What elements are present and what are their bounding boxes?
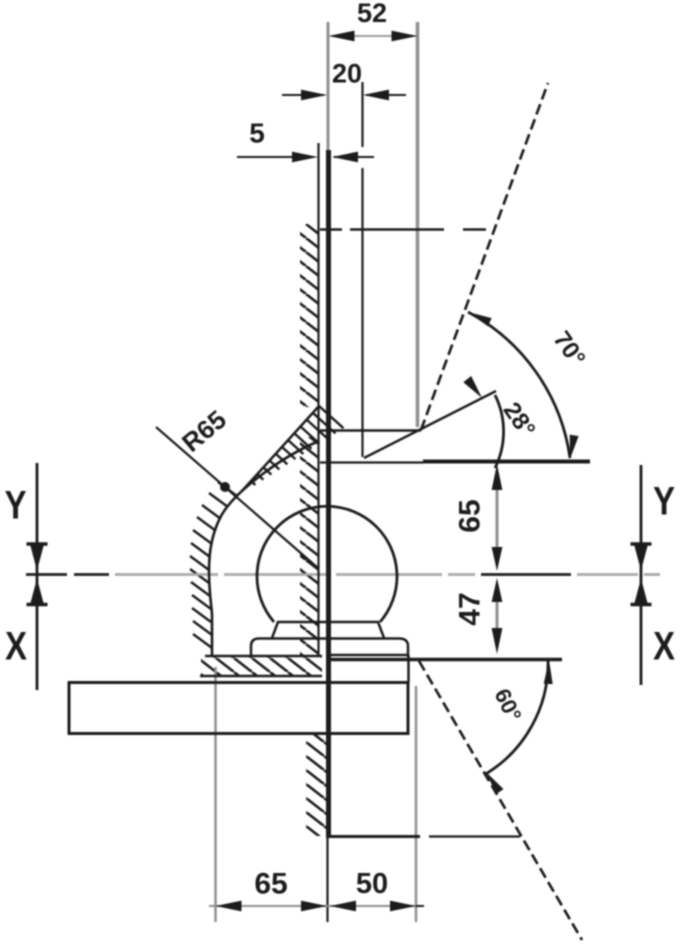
horizontal line at y430 (top reference) <box>320 429 421 432</box>
ball neck right <box>378 622 384 638</box>
hatching of curved hook wall wedge (R65 section) <box>319 406 343 428</box>
svg-text:Y: Y <box>5 483 27 528</box>
bracket plate right edge <box>407 655 410 682</box>
bottom dim arrows 50 <box>330 901 356 912</box>
svg-text:65: 65 <box>454 499 487 532</box>
hachure ticks along lower hook curve <box>218 482 237 496</box>
bracket plate right portion top edge <box>329 654 409 657</box>
horizontal centerline through ball center (dash pattern) <box>26 573 67 576</box>
hatching of horizontal bracket plate (section) <box>201 657 322 676</box>
28 degree dimension arc <box>495 395 504 468</box>
bottom extension line 65 (left) <box>214 667 217 922</box>
ball neck left <box>272 622 278 638</box>
dimension line 47 (vertical right) <box>496 586 499 646</box>
vertical wall right edge thick line <box>326 150 331 838</box>
extension line for 52 (left, top of wall) <box>327 22 330 150</box>
extension line for 52 (right) <box>416 22 420 427</box>
svg-text:70°: 70° <box>548 326 591 371</box>
hatching on lower vertical wall below rectangle <box>306 735 328 836</box>
dimension line 52 <box>331 35 415 37</box>
curved hook inner edge <box>209 441 319 656</box>
bottom dimension line <box>209 905 416 907</box>
extension line 20 (right) <box>361 82 363 147</box>
svg-text:R65: R65 <box>176 404 232 458</box>
long reference surface line to 60deg vertex <box>329 658 562 662</box>
svg-text:5: 5 <box>249 118 265 149</box>
bottom dim arrows 65 <box>216 901 242 912</box>
svg-text:47: 47 <box>454 592 487 625</box>
hatching on wall behind ball <box>300 437 319 656</box>
tow ball sphere <box>257 506 397 622</box>
bottom extension line 50 (right) <box>415 686 418 922</box>
svg-text:Y: Y <box>653 479 675 524</box>
horizontal line below wall (y836) <box>328 835 420 838</box>
right section axis line with arrows <box>640 465 643 685</box>
svg-text:20: 20 <box>332 59 362 89</box>
mounting bar rectangle <box>69 683 408 734</box>
R65 leader line <box>156 427 318 568</box>
horizontal reference line (70/28 deg vertex line) <box>320 461 423 463</box>
collar below ball <box>251 639 408 658</box>
svg-text:60°: 60° <box>489 685 526 726</box>
svg-text:65: 65 <box>254 868 287 901</box>
hatching on upper vertical wall (fixed-support hachures) <box>300 224 319 407</box>
vertical wall left edge line <box>317 143 319 657</box>
dimension line 65 (vertical right) <box>496 472 499 562</box>
svg-text:52: 52 <box>357 0 387 28</box>
bracket plate bottom edge (left of wall) <box>200 675 322 678</box>
70 degree dimension arc <box>468 312 570 458</box>
svg-text:X: X <box>5 624 27 669</box>
horizontal line at top of wall section <box>320 228 342 231</box>
wall extension to bottom dimension <box>326 838 328 922</box>
ball base line <box>277 621 379 624</box>
svg-text:X: X <box>653 624 675 669</box>
hook outer straight 47deg edge (tangent line) <box>242 406 319 491</box>
dimension line 5 <box>237 156 295 158</box>
60 degree dimension arc <box>484 659 548 775</box>
28 degree inclined line <box>364 391 496 458</box>
60 degree inclined line (dashed) <box>419 661 582 940</box>
dimension line 20 <box>282 94 324 96</box>
bracket plate top edge (left of wall) <box>205 655 322 658</box>
svg-text:50: 50 <box>356 868 388 900</box>
left section axis line with arrows <box>36 463 39 690</box>
70 degree inclined line (dashed) <box>421 83 548 430</box>
